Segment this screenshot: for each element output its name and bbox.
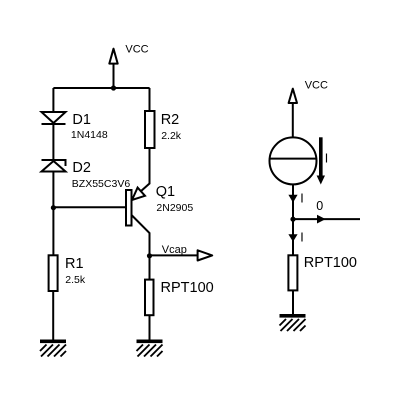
diode D1 (42, 112, 66, 124)
svg-text:I: I (325, 152, 328, 166)
ground (below RPT100 left) (137, 340, 163, 357)
wire top rail (53, 87, 149, 89)
power VCC symbol (right) (289, 89, 297, 138)
svg-text:RPT100: RPT100 (304, 255, 357, 271)
wire source to node 0 (292, 184, 294, 219)
current direction arrow of source (317, 137, 325, 184)
svg-text:D1: D1 (72, 112, 91, 128)
svg-text:Vcap: Vcap (162, 244, 187, 256)
svg-text:I: I (300, 192, 303, 206)
svg-text:BZX55C3V6: BZX55C3V6 (72, 178, 131, 190)
wire D1 cathode to D2 cathode (52, 124, 54, 160)
svg-text:0: 0 (316, 199, 323, 213)
node Vcap junction (147, 253, 152, 258)
svg-text:2.5k: 2.5k (65, 274, 86, 286)
svg-text:2N2905: 2N2905 (156, 202, 193, 214)
resistor RPT100 (left) (145, 280, 154, 316)
svg-text:R2: R2 (161, 112, 180, 128)
ground (below R1) (40, 340, 66, 357)
wire node 0 to RPT100 (292, 219, 294, 255)
current arrow on branch 0 (317, 215, 326, 224)
svg-text:1N4148: 1N4148 (71, 129, 108, 141)
svg-text:RPT100: RPT100 (161, 280, 214, 296)
svg-text:R1: R1 (65, 256, 84, 272)
wire R2 to emitter of Q1 (132, 148, 150, 200)
node junction 0 (290, 217, 295, 222)
wire RPT100 to ground (149, 315, 151, 340)
current arrow I (below node) (288, 234, 297, 241)
wire R1 to ground (52, 291, 54, 340)
svg-text:2.2k: 2.2k (161, 130, 182, 142)
power VCC symbol (left) (109, 49, 117, 88)
current arrow I (above node) (288, 195, 297, 203)
node junction on VCC rail (111, 85, 116, 90)
transistor Q1 (PNP) (126, 188, 145, 226)
wire RPT100 to ground (right) (292, 290, 294, 315)
wire branch 0 (293, 218, 360, 220)
output port Vcap (150, 250, 213, 260)
svg-text:VCC: VCC (305, 80, 328, 92)
wire rail to R2 (149, 88, 151, 111)
svg-text:Q1: Q1 (156, 184, 175, 200)
svg-text:D2: D2 (72, 160, 91, 176)
wire base of Q1 (53, 206, 126, 208)
wire D2 anode to base node (52, 172, 54, 256)
ground (below RPT100 right) (280, 314, 306, 331)
wire rail to D1 anode (52, 88, 54, 112)
resistor RPT100 (right) (288, 255, 297, 290)
node base junction (51, 205, 56, 210)
resistor R1 (49, 255, 58, 291)
wire collector of Q1 to node Vcap (132, 215, 150, 256)
resistor R2 (145, 111, 155, 148)
svg-text:VCC: VCC (125, 44, 148, 56)
wire node Vcap to RPT100 (149, 255, 151, 280)
current source IS1 (269, 137, 316, 184)
svg-text:I: I (300, 231, 303, 245)
zener diode D2 (42, 160, 66, 172)
